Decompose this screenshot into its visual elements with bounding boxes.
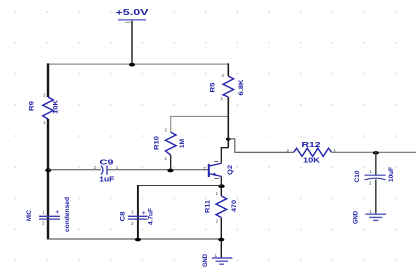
svg-text:2: 2 <box>43 93 46 98</box>
svg-text:1: 1 <box>221 96 224 101</box>
wire: C8 vertical <box>137 185 139 240</box>
svg-text:1: 1 <box>165 156 168 161</box>
power +5.0V symbol <box>116 8 150 22</box>
wire: emitter down to junction <box>220 176 222 185</box>
wire: bottom rail <box>47 238 223 240</box>
svg-text:R12: R12 <box>302 142 321 149</box>
svg-text:2: 2 <box>216 219 219 224</box>
wire: emitter junction to R11 <box>220 186 222 196</box>
wire: base net horizontal (left vertical to C9) <box>48 169 101 171</box>
node: R11/bottom-rail junction <box>218 238 224 242</box>
node: emitter/C8 junction <box>218 184 224 188</box>
svg-text:Q2: Q2 <box>227 165 234 175</box>
svg-text:1: 1 <box>369 209 372 214</box>
wire: C8 top corner from emitter junction <box>138 185 221 187</box>
node: C8/bottom-rail junction <box>135 238 141 242</box>
svg-text:2: 2 <box>165 128 168 133</box>
svg-text:1: 1 <box>369 169 372 174</box>
svg-text:+: + <box>56 210 60 216</box>
svg-text:1M: 1M <box>179 139 186 148</box>
wire: collector jog <box>221 148 228 164</box>
svg-text:10K: 10K <box>53 100 60 114</box>
svg-text:470: 470 <box>231 200 238 212</box>
svg-text:2: 2 <box>222 73 225 78</box>
ground GND (right) <box>366 214 387 220</box>
resistor R9 <box>43 97 54 119</box>
wire: R11 to bottom rail and GND stem <box>220 218 222 258</box>
svg-text:10uF: 10uF <box>388 167 395 182</box>
node: R10 bottom junction <box>167 169 173 173</box>
svg-text:condensed: condensed <box>64 197 71 232</box>
microphone MIC plates <box>39 216 60 219</box>
wire: R5 top lead from rail <box>227 63 229 76</box>
svg-text:1: 1 <box>131 210 134 215</box>
svg-text:C10: C10 <box>354 170 361 182</box>
svg-text:+: + <box>142 211 146 217</box>
svg-text:1: 1 <box>216 191 219 196</box>
svg-text:+5.0V: +5.0V <box>116 8 150 17</box>
svg-text:2: 2 <box>131 221 134 226</box>
svg-text:1: 1 <box>116 165 119 170</box>
svg-text:C9: C9 <box>100 159 114 166</box>
wire: left vertical lower (R9 to bottom rail) <box>47 119 49 240</box>
svg-text:C8: C8 <box>120 211 127 221</box>
svg-text:2: 2 <box>42 220 45 225</box>
svg-text:1: 1 <box>42 210 45 215</box>
wire: R10 top lead and horizontal to R5 lead <box>171 116 229 132</box>
resistor R10 <box>165 132 176 155</box>
svg-text:2: 2 <box>369 181 372 186</box>
wire: base net horizontal (C9 to Q2 base) <box>107 169 209 171</box>
svg-text:4.7uF: 4.7uF <box>148 208 155 225</box>
ground GND (bottom) <box>212 258 233 264</box>
wire: C10 bottom lead to GND <box>375 180 377 214</box>
svg-text:R5: R5 <box>210 82 217 92</box>
svg-text:1uF: 1uF <box>99 176 115 183</box>
node: C10 tap junction <box>373 151 379 155</box>
svg-text:R9: R9 <box>29 101 36 111</box>
wire: left vertical upper (rail to R9) <box>47 63 49 97</box>
wire: C10 top lead <box>375 152 377 175</box>
resistor R5 <box>223 76 234 97</box>
svg-text:2: 2 <box>203 166 206 171</box>
wire: R5 bottom lead down to collector jog <box>227 97 229 148</box>
svg-text:1: 1 <box>43 120 46 125</box>
svg-text:R10: R10 <box>154 136 161 150</box>
svg-text:MIC: MIC <box>26 210 33 221</box>
resistor R12 <box>294 148 332 156</box>
wire: R10 bottom lead <box>170 155 172 170</box>
node: R12 branch tap <box>226 138 231 141</box>
capacitor C8 plates <box>128 216 148 219</box>
svg-text:2: 2 <box>287 148 290 153</box>
wire: top rail <box>48 63 228 65</box>
wire: R12 to output <box>332 151 416 153</box>
svg-text:6.8K: 6.8K <box>238 79 245 95</box>
svg-text:10K: 10K <box>303 158 320 165</box>
svg-text:R11: R11 <box>205 200 212 213</box>
resistor R11 <box>216 196 227 218</box>
capacitor C10 plates <box>365 175 386 180</box>
node: V+ junction on rail <box>129 63 135 67</box>
svg-text:1: 1 <box>215 253 218 258</box>
svg-text:GND: GND <box>202 254 209 267</box>
node: base-net tap on left vertical <box>45 168 51 172</box>
wire: power drop <box>131 21 133 66</box>
svg-text:GND: GND <box>353 211 360 224</box>
capacitor C9 <box>101 166 107 175</box>
transistor Q2 <box>209 163 222 177</box>
wire: branch to R12 <box>228 139 293 153</box>
svg-text:2: 2 <box>94 165 97 170</box>
